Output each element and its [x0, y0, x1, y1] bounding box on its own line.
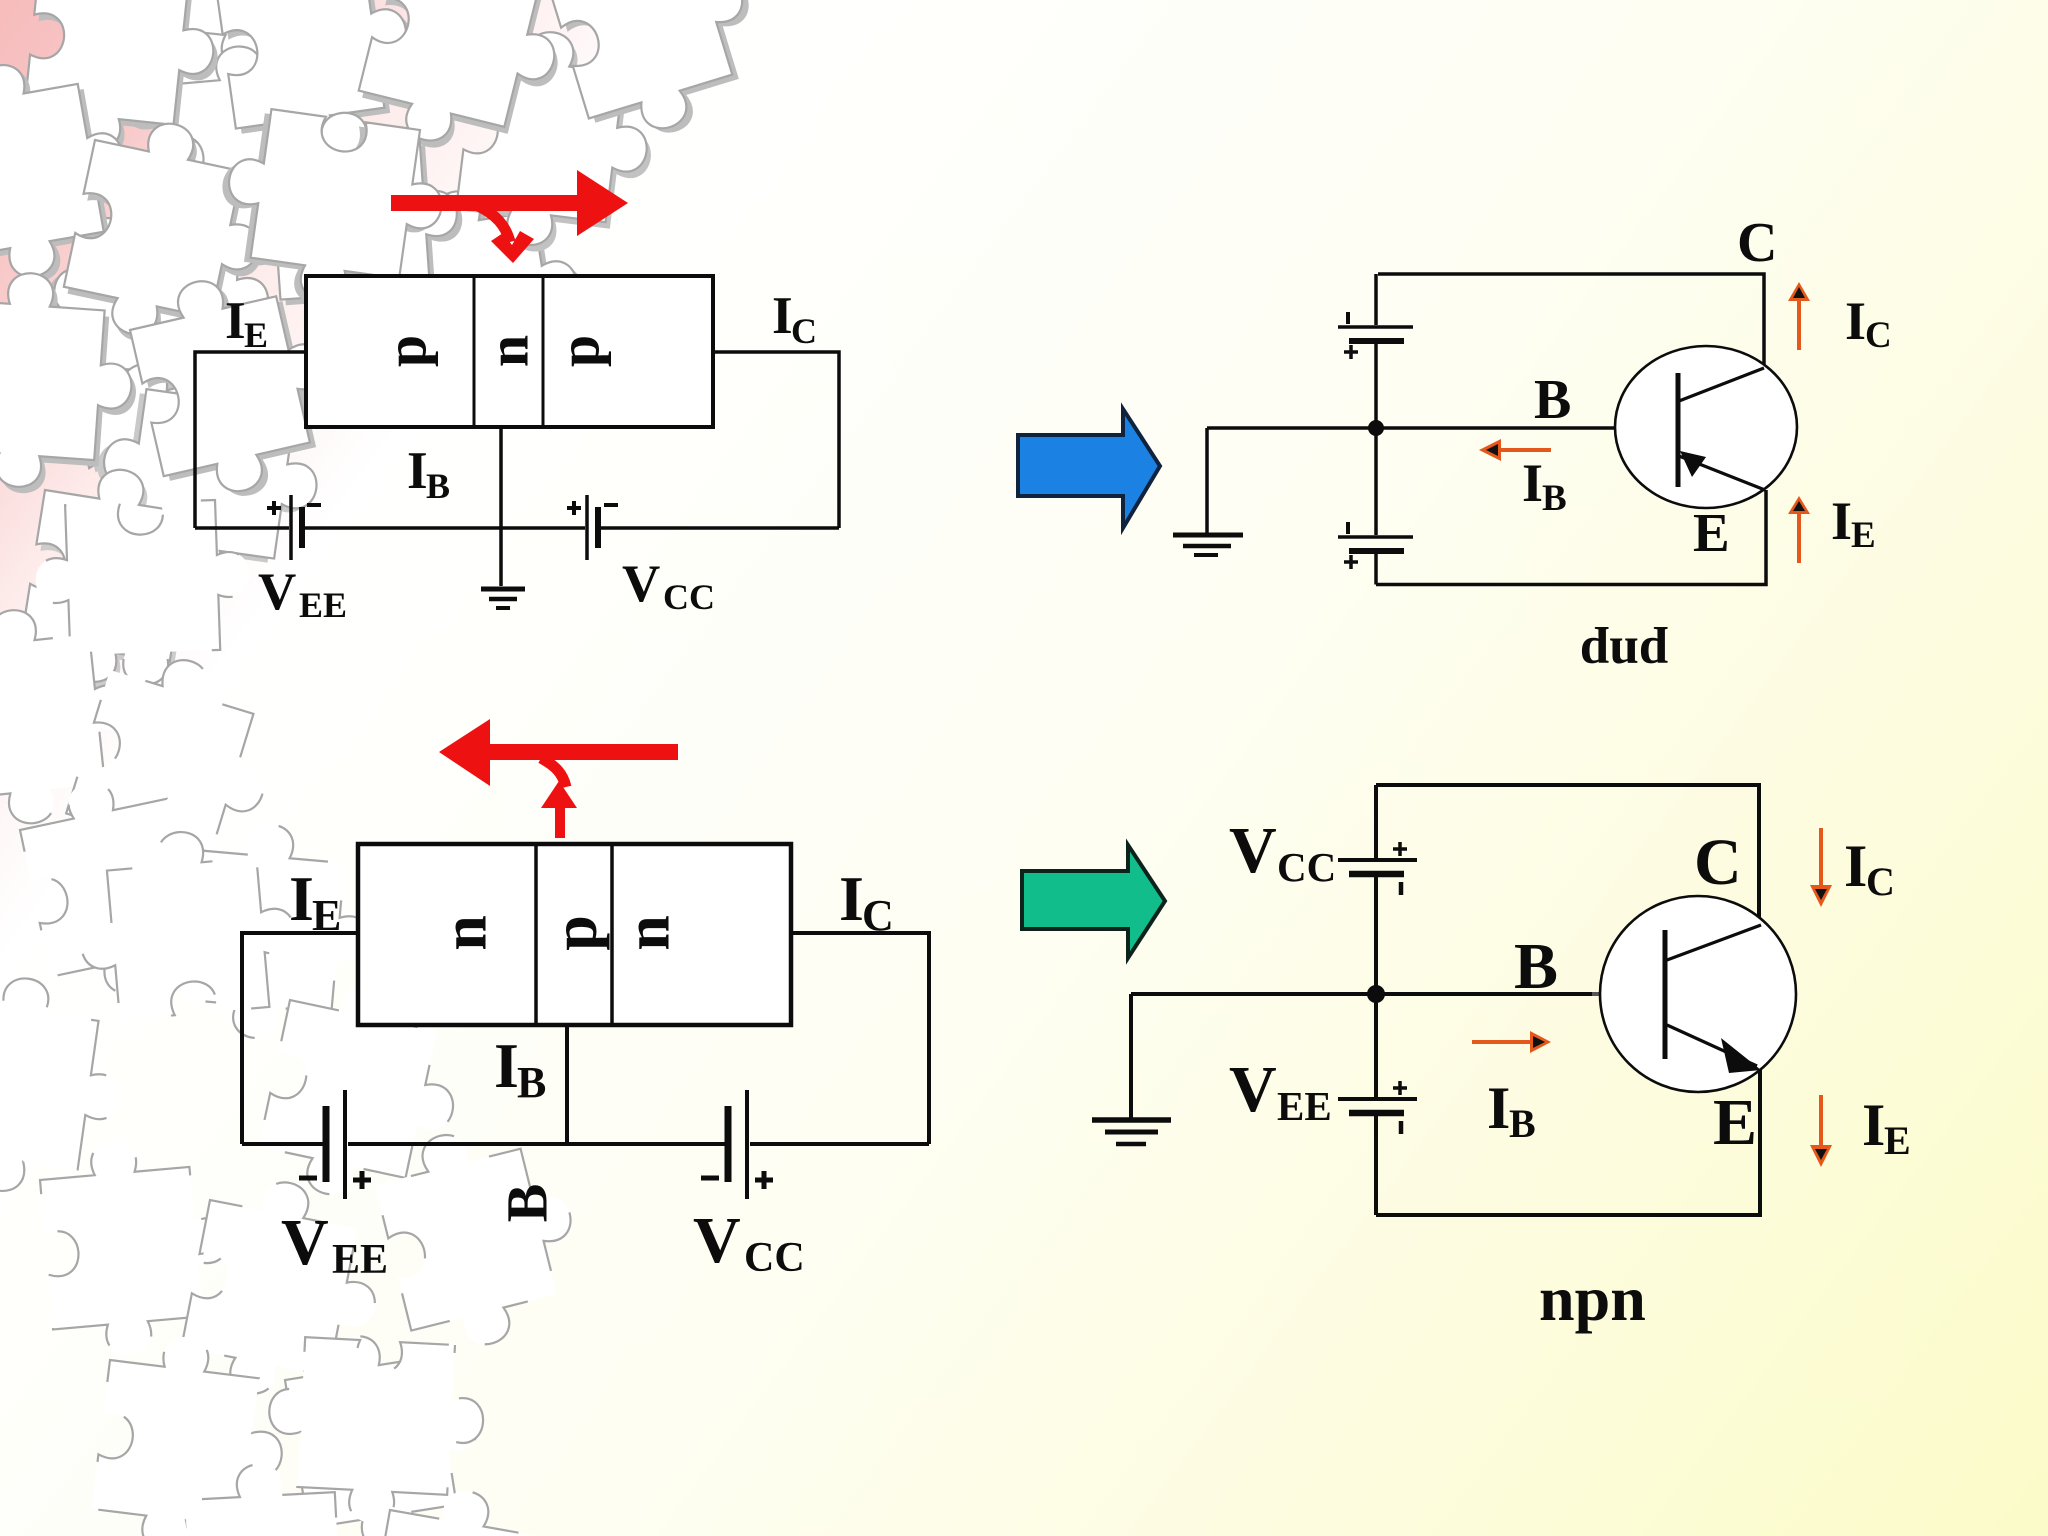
- IC current arrow: [1810, 828, 1832, 907]
- junction E-B: [473, 276, 476, 427]
- svg-text:pnp: pnp: [1580, 627, 1668, 685]
- battery VCC: [585, 495, 589, 560]
- ground: [1092, 1120, 1171, 1144]
- svg-text:EE: EE: [332, 1237, 388, 1283]
- svg-text:CC: CC: [744, 1235, 805, 1281]
- red current arrow (electron current): [439, 719, 678, 838]
- svg-text:E: E: [1713, 1086, 1757, 1159]
- svg-text:p: p: [374, 335, 439, 367]
- svg-text:I: I: [1862, 1092, 1885, 1158]
- svg-text:I: I: [1522, 453, 1543, 513]
- svg-text:B: B: [1534, 369, 1571, 431]
- svg-text:I: I: [772, 287, 793, 345]
- junction B-C: [542, 276, 545, 427]
- ground: [481, 589, 525, 608]
- battery VEE: [323, 1106, 330, 1182]
- battery VEE: [289, 495, 293, 560]
- svg-text:C: C: [1737, 212, 1777, 274]
- base wire: [1207, 426, 1676, 430]
- emitter bottom wire: [1376, 490, 1766, 585]
- svg-text:EE: EE: [299, 585, 347, 625]
- svg-text:n: n: [475, 335, 540, 367]
- svg-text:V: V: [1229, 814, 1277, 887]
- svg-text:I: I: [1487, 1075, 1510, 1141]
- battery VCC (upper): [1338, 858, 1417, 862]
- svg-text:B: B: [426, 466, 450, 506]
- svg-text:I: I: [1831, 491, 1852, 551]
- junction E-B: [534, 844, 538, 1025]
- svg-text:V: V: [1229, 1053, 1277, 1126]
- svg-text:V: V: [281, 1206, 329, 1279]
- svg-text:E: E: [1851, 515, 1876, 556]
- svg-text:I: I: [839, 863, 864, 934]
- svg-text:p: p: [539, 915, 610, 951]
- svg-text:CC: CC: [1277, 844, 1336, 890]
- svg-text:I: I: [289, 863, 314, 934]
- svg-text:EE: EE: [1277, 1083, 1332, 1129]
- svg-text:C: C: [1694, 826, 1742, 899]
- junction B-C: [610, 844, 614, 1025]
- emitter wire: [242, 933, 358, 1144]
- svg-text:C: C: [1865, 315, 1892, 356]
- battery VEE (lower): [1338, 535, 1413, 539]
- battery chain left wire: [1374, 785, 1378, 858]
- collector top wire: [1376, 785, 1759, 925]
- svg-text:B: B: [1509, 1101, 1536, 1146]
- svg-text:C: C: [1866, 859, 1895, 904]
- svg-text:C: C: [791, 311, 817, 351]
- IE current arrow: [1788, 496, 1810, 563]
- svg-text:E: E: [1884, 1118, 1911, 1163]
- ground stub wire: [1205, 428, 1209, 534]
- ground stub wire: [1129, 994, 1133, 1119]
- base stub wire: [565, 1025, 569, 1144]
- svg-text:E: E: [244, 315, 268, 355]
- red current arrow (hole current): [391, 170, 628, 263]
- IB current arrow: [1479, 439, 1551, 461]
- svg-text:E: E: [312, 891, 341, 940]
- svg-text:n: n: [611, 915, 682, 951]
- svg-text:I: I: [1845, 291, 1866, 351]
- svg-text:CC: CC: [663, 577, 715, 617]
- svg-text:I: I: [407, 442, 428, 500]
- node B junction dot: [1367, 985, 1385, 1003]
- svg-text:E: E: [1693, 502, 1730, 563]
- transistor Q2 npn symbol: [1600, 896, 1796, 1092]
- svg-text:p: p: [547, 335, 612, 367]
- node B junction dot: [1368, 420, 1384, 436]
- svg-text:B: B: [1514, 930, 1558, 1003]
- base wire: [1131, 992, 1592, 996]
- bottom loop wire: [195, 526, 289, 530]
- emitter wire: [195, 352, 306, 528]
- svg-text:n: n: [428, 915, 499, 951]
- svg-text:I: I: [225, 292, 246, 350]
- base wire to ground: [499, 427, 503, 586]
- battery chain left wire: [1374, 274, 1378, 325]
- svg-text:V: V: [258, 563, 296, 621]
- ground: [1173, 535, 1243, 555]
- IE current arrow: [1810, 1095, 1832, 1167]
- svg-text:B: B: [1542, 478, 1567, 519]
- svg-text:I: I: [1844, 833, 1867, 899]
- transistor Q1 pnp symbol: [1615, 346, 1797, 508]
- bottom loop wire: [242, 1142, 323, 1146]
- IB current arrow: [1472, 1031, 1551, 1053]
- svg-text:C: C: [862, 891, 894, 940]
- green arrow: [1022, 845, 1165, 958]
- collector wire: [713, 352, 839, 528]
- svg-text:I: I: [494, 1030, 519, 1101]
- battery VEE (lower): [1338, 1097, 1417, 1101]
- battery VCC (upper): [1338, 325, 1413, 329]
- svg-text:B: B: [494, 1184, 559, 1223]
- decorative puzzle pieces (left side): [0, 0, 779, 1536]
- svg-text:V: V: [693, 1204, 741, 1277]
- svg-text:B: B: [517, 1058, 546, 1107]
- svg-text:npn: npn: [1539, 1263, 1646, 1334]
- emitter bottom wire: [1376, 1066, 1760, 1215]
- transistor block n-p-n: [358, 844, 791, 1025]
- blue arrow: [1018, 409, 1160, 528]
- collector top wire: [1378, 274, 1764, 368]
- transistor block p-n-p: [306, 276, 713, 427]
- svg-text:V: V: [622, 555, 660, 613]
- battery VCC: [725, 1106, 732, 1182]
- IC current arrow: [1788, 282, 1810, 350]
- collector wire: [791, 933, 929, 1144]
